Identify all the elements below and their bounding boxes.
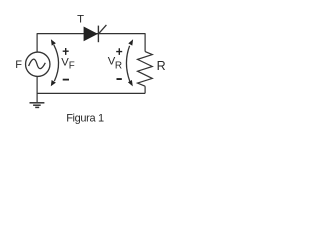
VR minus sign xyxy=(117,78,122,80)
VF arc arrowhead top xyxy=(51,39,56,45)
svg-text:T: T xyxy=(77,14,84,26)
VF arc arrowhead bottom xyxy=(51,80,56,86)
sine wave inside source xyxy=(29,59,46,68)
thyristor T gate line xyxy=(98,25,106,34)
svg-text:F: F xyxy=(69,61,75,72)
wire right vertical lower xyxy=(144,86,146,93)
VF minus sign xyxy=(63,79,69,81)
wire top horizontal xyxy=(37,33,145,35)
VR plus sign xyxy=(116,48,122,55)
VF plus sign xyxy=(63,48,69,55)
ground xyxy=(30,103,45,108)
VR arc arrow curve xyxy=(126,46,129,82)
svg-text:R: R xyxy=(115,61,122,72)
thyristor T cathode bar xyxy=(97,26,99,43)
wire left vertical upper xyxy=(36,33,38,52)
VR arc arrowhead top xyxy=(128,39,133,45)
thyristor T anode triangle xyxy=(84,27,98,42)
svg-text:F: F xyxy=(15,59,22,71)
wire right vertical upper xyxy=(144,33,146,51)
wire bottom horizontal xyxy=(37,92,145,94)
VF arc arrow curve xyxy=(54,45,59,81)
svg-text:R: R xyxy=(157,59,166,73)
VR arc arrowhead bottom xyxy=(128,80,133,86)
resistor R zigzag xyxy=(138,52,153,87)
wire left vertical lower xyxy=(36,77,38,102)
svg-text:Figura 1: Figura 1 xyxy=(66,112,104,124)
source F circle xyxy=(26,52,50,76)
